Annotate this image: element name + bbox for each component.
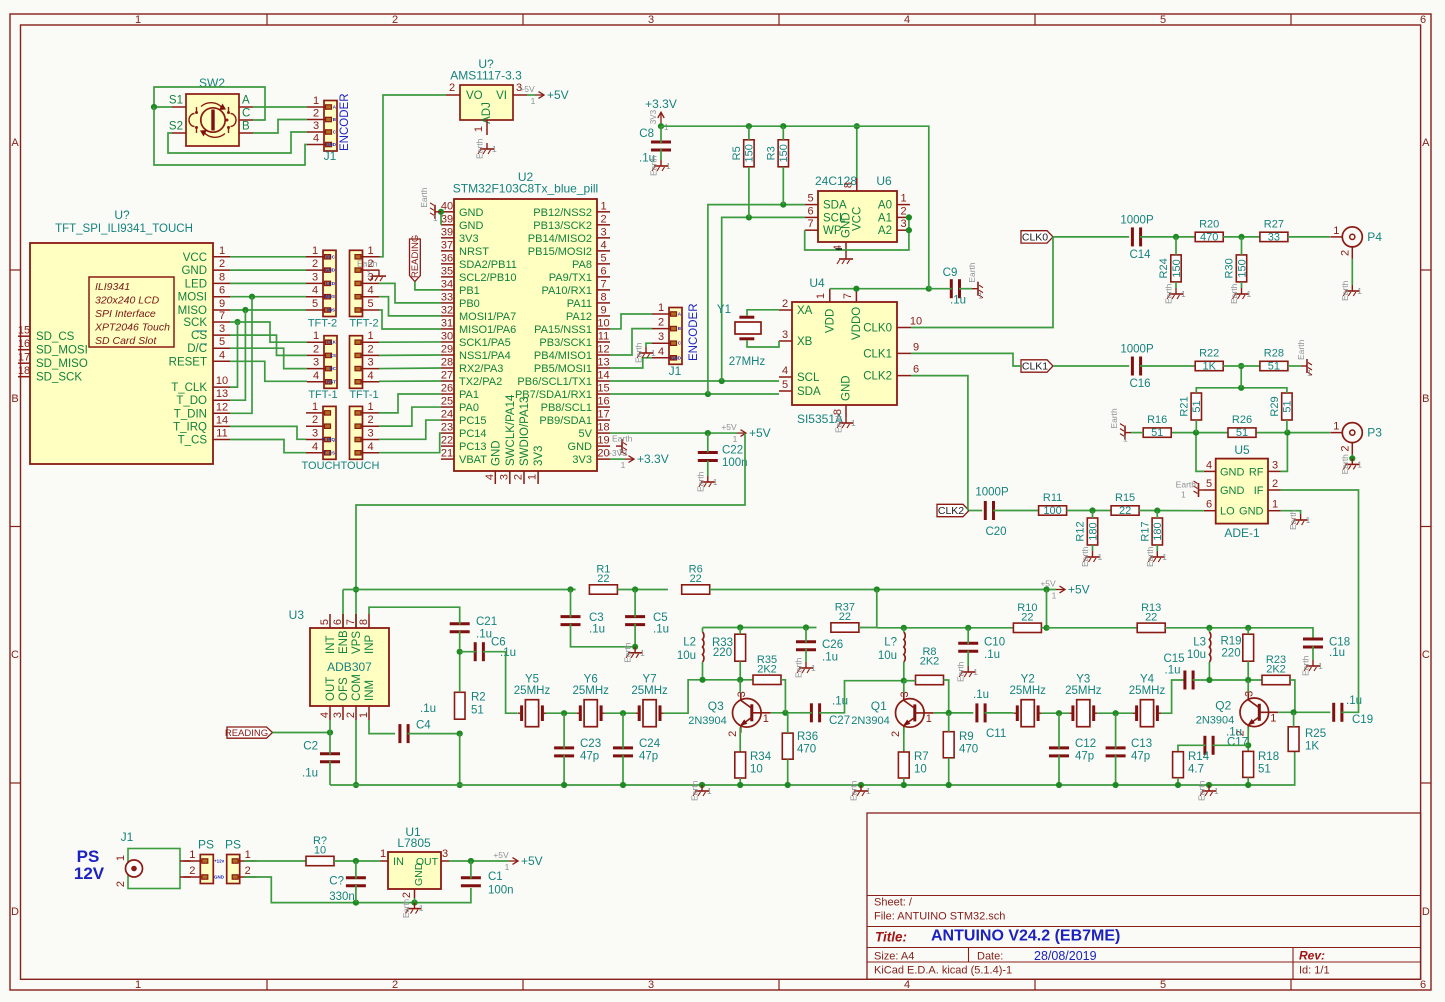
capacitor C6 .1u [475, 637, 516, 662]
svg-text:LED: LED [185, 278, 207, 290]
svg-text:1: 1 [473, 126, 485, 132]
svg-text:TFT-2: TFT-2 [308, 318, 337, 330]
STM32 right pin 12 PB4/MISO1 [534, 343, 610, 362]
junction [1245, 677, 1251, 683]
svg-text:C27: C27 [829, 715, 850, 727]
junction [1206, 782, 1212, 788]
svg-text:+5V: +5V [519, 84, 535, 94]
wire [1241, 237, 1243, 255]
svg-text:R9: R9 [959, 731, 974, 743]
svg-text:Earth: Earth [1109, 408, 1119, 429]
svg-text:Earth: Earth [649, 155, 659, 176]
wire [355, 885, 357, 903]
svg-text:RX2/PA3: RX2/PA3 [459, 363, 503, 375]
STM32 right pin 17 PB9/SDA1 [539, 409, 610, 428]
svg-text:PA11: PA11 [567, 298, 592, 310]
svg-text:25MHz: 25MHz [1129, 685, 1166, 697]
svg-text:PB15/MOSI2: PB15/MOSI2 [528, 246, 592, 258]
svg-text:+5V: +5V [547, 88, 569, 102]
svg-text:1: 1 [1270, 712, 1276, 724]
junction [1175, 782, 1181, 788]
svg-text:10: 10 [914, 764, 927, 776]
junction [242, 307, 248, 313]
svg-text:C10: C10 [984, 637, 1005, 649]
svg-text:Earth: Earth [1197, 780, 1207, 801]
svg-text:PA8: PA8 [572, 259, 592, 271]
svg-text:2: 2 [392, 14, 398, 26]
svg-text:ILI9341: ILI9341 [95, 281, 130, 293]
wire [934, 712, 973, 714]
svg-text:16: 16 [597, 396, 609, 408]
wire [605, 712, 636, 714]
junction [906, 227, 912, 233]
wire [903, 778, 905, 785]
svg-text:SD_SCK: SD_SCK [36, 372, 82, 384]
connector J1 (encoder at STM32) [652, 302, 682, 378]
svg-text:D/C: D/C [187, 343, 207, 355]
STM32 left pin 37 NRST [441, 239, 489, 258]
svg-text:3: 3 [648, 979, 654, 991]
wire [1042, 712, 1070, 714]
svg-text:Earth: Earth [357, 259, 378, 269]
svg-text:GND: GND [459, 207, 484, 219]
svg-text:IF: IF [1254, 485, 1264, 497]
svg-text:13: 13 [216, 388, 228, 400]
svg-text:5: 5 [1160, 14, 1166, 26]
svg-text:3: 3 [313, 357, 319, 369]
module pin 7 SCK [183, 310, 230, 329]
svg-text:SW2: SW2 [199, 76, 225, 90]
svg-text:3V3: 3V3 [533, 446, 545, 466]
svg-text:36: 36 [441, 252, 453, 264]
STM32 right pin 10 PA15/NSS1 [534, 317, 610, 336]
wire [355, 720, 357, 785]
resistor R23 2K2 [1262, 654, 1290, 685]
svg-text:R11: R11 [1043, 492, 1062, 504]
svg-text:150: 150 [1171, 259, 1183, 277]
wire [379, 354, 441, 356]
resistor R33 220 vertical [712, 634, 746, 661]
junction [327, 729, 333, 735]
capacitor C11 .1u [973, 689, 1006, 740]
svg-text:Q1: Q1 [871, 699, 887, 713]
svg-text:4: 4 [367, 285, 373, 297]
svg-text:PS: PS [198, 838, 214, 852]
svg-text:2: 2 [401, 892, 413, 898]
svg-text:MOSI1/PA7: MOSI1/PA7 [459, 311, 516, 323]
junction [901, 782, 907, 788]
svg-text:CLK0: CLK0 [863, 323, 892, 335]
svg-text:1: 1 [312, 245, 318, 257]
wire [230, 269, 306, 271]
svg-text:T_DO: T_DO [176, 395, 207, 407]
svg-text:39: 39 [441, 213, 453, 225]
svg-text:+5V: +5V [749, 426, 771, 440]
svg-text:51: 51 [1191, 400, 1203, 412]
svg-text:4.7: 4.7 [1188, 764, 1204, 776]
svg-text:3: 3 [498, 474, 510, 480]
wire [1312, 646, 1314, 660]
STM32 left pin 39 GND [441, 213, 484, 232]
svg-text:Sheet: /: Sheet: / [874, 897, 913, 909]
wire [856, 126, 858, 178]
rotary encoder SW2 [169, 76, 253, 146]
svg-text:22: 22 [1021, 611, 1033, 623]
wire [329, 761, 331, 785]
junction [353, 900, 359, 906]
svg-text:8: 8 [219, 271, 225, 283]
svg-text:13: 13 [597, 356, 609, 368]
junction [1206, 677, 1212, 683]
wire [967, 628, 969, 644]
svg-text:C: C [1422, 649, 1430, 661]
wire [967, 651, 969, 667]
svg-text:4: 4 [367, 441, 373, 453]
STM32 left pin 27 TX2/PA2 [441, 370, 502, 389]
svg-text:Earth: Earth [794, 657, 804, 678]
svg-text:9: 9 [600, 304, 606, 316]
svg-text:1: 1 [733, 434, 738, 444]
junction [803, 624, 809, 630]
mcu U2 STM32F103C8Tx_blue_pill [453, 170, 598, 471]
svg-text:4: 4 [782, 365, 788, 377]
connector TFT-1 (right) [349, 330, 379, 401]
svg-text:4: 4 [1206, 459, 1212, 471]
wire [948, 713, 950, 732]
resistor R14 4.7 vertical [1173, 751, 1210, 778]
svg-text:RST: RST [327, 379, 336, 384]
svg-text:LO: LO [1220, 506, 1235, 518]
svg-text:Earth: Earth [956, 661, 966, 682]
junction [699, 677, 705, 683]
resistor R29 51 vertical [1269, 393, 1294, 420]
svg-text:5: 5 [219, 336, 225, 348]
svg-text:3: 3 [899, 691, 911, 697]
svg-text:T_IRQ: T_IRQ [173, 421, 207, 433]
svg-text:R12: R12 [1075, 521, 1087, 541]
svg-text:AMS1117-3.3: AMS1117-3.3 [450, 69, 522, 83]
wire [660, 149, 662, 160]
power +3.3V above C8 [645, 97, 677, 132]
wire [1067, 510, 1112, 512]
svg-text:Earth: Earth [419, 187, 429, 208]
resistor R21 51 vertical [1178, 393, 1203, 420]
transistor Q1 2N3904 [851, 691, 934, 737]
svg-text:1: 1 [367, 269, 372, 279]
resistor R11 100 [1039, 492, 1067, 517]
svg-text:R19: R19 [1220, 636, 1241, 648]
svg-text:B: B [11, 393, 18, 405]
svg-text:D: D [11, 906, 19, 918]
svg-text:+5V: +5V [521, 854, 543, 868]
svg-text:SDA2/PB11: SDA2/PB11 [459, 259, 517, 271]
wire [440, 212, 442, 225]
svg-text:R2: R2 [471, 692, 486, 704]
junction [854, 123, 860, 129]
STM32 right pin 3 PB14/MISO2 [528, 226, 610, 245]
junction [926, 286, 932, 292]
wire [1156, 511, 1158, 518]
wire [563, 713, 565, 749]
svg-text:Earth: Earth [623, 642, 633, 663]
svg-text:XA: XA [797, 305, 813, 317]
earth at AMS1117 ADJ [475, 138, 498, 159]
svg-text:.1u: .1u [973, 689, 989, 701]
STM32 bottom pin 2 SWDIO/PA13 [513, 397, 532, 484]
svg-text:22: 22 [690, 573, 702, 585]
svg-text:.1u: .1u [420, 703, 436, 715]
module pin 10 T_CLK [171, 375, 230, 394]
svg-text:PB14/MISO2: PB14/MISO2 [528, 233, 592, 245]
inductor L? 10u [878, 632, 905, 662]
earth below C3/C5 [623, 642, 646, 663]
svg-text:C3: C3 [589, 612, 604, 624]
wire [661, 126, 929, 289]
svg-text:100: 100 [1043, 505, 1061, 517]
junction [1154, 508, 1160, 514]
svg-text:9: 9 [219, 298, 225, 310]
svg-text:1: 1 [135, 979, 141, 991]
junction [658, 123, 664, 129]
capacitor C22 100n [698, 445, 748, 470]
svg-text:47p: 47p [1131, 751, 1150, 763]
wire [610, 393, 779, 395]
svg-text:320x240 LCD: 320x240 LCD [95, 295, 160, 307]
svg-text:GND: GND [490, 440, 502, 466]
svg-text:4: 4 [313, 370, 319, 382]
wire [1255, 432, 1330, 434]
wire [993, 510, 1039, 512]
transistor Q3 2N3904 [688, 691, 771, 737]
svg-text:22: 22 [1145, 611, 1157, 623]
wire [664, 680, 703, 713]
junction [1056, 782, 1062, 788]
svg-text:1: 1 [492, 144, 497, 154]
svg-text:WP: WP [823, 225, 842, 237]
svg-text:1: 1 [419, 904, 424, 913]
svg-text:1: 1 [1123, 434, 1128, 444]
wire [805, 628, 807, 643]
svg-text:U6: U6 [876, 174, 892, 188]
STM32 bottom pin 3 SWCLK/PA14 [498, 394, 517, 484]
svg-text:CLK0: CLK0 [1022, 232, 1048, 244]
resistor R6 22 [682, 564, 710, 595]
power +5V on amp rail [1040, 579, 1089, 601]
module pin 9 MISO [178, 298, 230, 317]
connector PS (right) [225, 838, 257, 884]
resistor R12 180 vertical [1075, 518, 1100, 545]
STM32 left pin 36 SDA2/PB11 [441, 252, 517, 271]
wire [415, 282, 441, 290]
svg-text:1: 1 [358, 712, 370, 718]
wire [739, 727, 741, 752]
svg-text:GND: GND [413, 862, 425, 886]
svg-text:Y1: Y1 [717, 304, 731, 316]
svg-text:3: 3 [1272, 459, 1278, 471]
wire [379, 95, 446, 257]
svg-text:B: B [1422, 393, 1429, 405]
svg-text:1: 1 [973, 667, 978, 677]
svg-text:12: 12 [216, 401, 228, 413]
svg-text:5V: 5V [579, 428, 593, 440]
svg-text:.1u: .1u [302, 768, 318, 780]
svg-text:PC15: PC15 [459, 415, 487, 427]
wire [610, 432, 737, 434]
svg-text:SCL: SCL [797, 372, 820, 384]
svg-text:CLK1: CLK1 [863, 348, 892, 360]
junction [946, 710, 952, 716]
wire [739, 680, 741, 693]
svg-text:+5V: +5V [1068, 583, 1090, 597]
svg-text:1: 1 [815, 293, 827, 299]
wire [1351, 455, 1353, 459]
svg-text:10u: 10u [878, 650, 897, 662]
wire [660, 126, 662, 143]
svg-text:DC: DC [330, 366, 337, 371]
svg-text:1K: 1K [1202, 361, 1216, 373]
wire [570, 590, 572, 618]
wire [483, 652, 518, 714]
connector TFT-2 (right) [349, 245, 379, 330]
wire [230, 426, 306, 439]
svg-text:1: 1 [651, 348, 656, 358]
capacitor C3 .1u [561, 612, 606, 636]
junction [1043, 586, 1049, 592]
junction [853, 286, 859, 292]
capacitor C14 1000P [1120, 215, 1154, 262]
svg-text:PA15/NSS1: PA15/NSS1 [534, 324, 592, 336]
svg-text:R36: R36 [797, 731, 818, 743]
svg-text:R29: R29 [1269, 396, 1281, 416]
svg-text:3: 3 [312, 271, 318, 283]
svg-text:R30: R30 [1224, 258, 1236, 278]
capacitor C17 .1u [1205, 727, 1248, 755]
wire [1092, 545, 1094, 551]
svg-text:11: 11 [598, 330, 609, 342]
junction [1238, 385, 1244, 391]
earth below R17 [1145, 546, 1168, 567]
svg-text:L3: L3 [1193, 637, 1206, 649]
wire [710, 589, 1056, 591]
svg-text:17: 17 [18, 352, 30, 364]
svg-text:47p: 47p [580, 751, 599, 763]
junction [234, 319, 240, 325]
svg-text:4: 4 [367, 370, 373, 382]
wire [782, 126, 784, 140]
connector P3 coax [1330, 421, 1382, 455]
wire [748, 167, 750, 218]
svg-text:INM: INM [364, 680, 376, 701]
junction [874, 586, 880, 592]
wire [904, 680, 916, 682]
STM32 right pin 5 PA8 [572, 252, 610, 271]
earth at TFT-2 right pin2 [357, 259, 386, 282]
svg-text:MISO: MISO [178, 305, 207, 317]
wire [460, 651, 476, 653]
svg-text:PA1: PA1 [459, 389, 479, 401]
svg-text:150: 150 [1236, 259, 1248, 277]
svg-text:INP: INP [364, 635, 376, 655]
svg-text:1: 1 [763, 713, 769, 725]
svg-text:5: 5 [312, 298, 318, 310]
wire [782, 167, 784, 205]
wire [253, 106, 307, 108]
svg-text:C12: C12 [1075, 738, 1096, 750]
svg-text:R21: R21 [1178, 396, 1190, 416]
svg-text:P3: P3 [1367, 426, 1382, 440]
svg-text:GND: GND [671, 355, 682, 360]
wire [230, 297, 252, 414]
connector J1 (encoder top) [307, 95, 337, 163]
svg-text:U5: U5 [1234, 443, 1250, 457]
wire [1058, 713, 1060, 749]
svg-text:1: 1 [707, 786, 712, 796]
junction [901, 625, 907, 631]
svg-text:1: 1 [1318, 661, 1323, 671]
connector PS (left) [183, 838, 224, 884]
wire [230, 335, 307, 355]
svg-text:Earth: Earth [1176, 480, 1197, 490]
svg-text:R20: R20 [1199, 218, 1219, 230]
svg-text:VDDO: VDDO [851, 307, 863, 340]
svg-text:+3.3V: +3.3V [637, 452, 669, 466]
junction [780, 123, 786, 129]
module pin 17 SD_MISO [18, 352, 88, 371]
wire [985, 712, 1014, 714]
svg-text:5: 5 [600, 252, 606, 264]
svg-text:1K: 1K [1305, 741, 1319, 753]
svg-text:OUT: OUT [325, 677, 337, 701]
resistor R1 22 [589, 564, 617, 595]
capacitor C2 .1u [302, 741, 340, 780]
svg-text:23: 23 [441, 422, 453, 434]
svg-text:PA0: PA0 [459, 402, 479, 414]
junction [353, 858, 359, 864]
svg-text:220: 220 [713, 647, 732, 659]
svg-text:470: 470 [797, 744, 816, 756]
svg-text:330n: 330n [329, 891, 355, 903]
svg-text:J1: J1 [669, 364, 682, 378]
wire [610, 314, 652, 329]
svg-text:CS: CS [330, 353, 336, 358]
svg-text:C8: C8 [639, 128, 654, 140]
wire [859, 590, 877, 628]
resistor R30 150 vertical [1224, 255, 1249, 282]
wire [154, 107, 307, 165]
svg-text:PB4/MISO1: PB4/MISO1 [534, 350, 592, 362]
svg-text:25MHz: 25MHz [572, 685, 609, 697]
svg-text:3: 3 [648, 14, 654, 26]
svg-text:1: 1 [621, 460, 626, 470]
wire [379, 380, 441, 382]
svg-text:22: 22 [441, 435, 453, 447]
junction [620, 782, 626, 788]
junction [567, 586, 573, 592]
svg-text:GND: GND [181, 265, 207, 277]
transistor Q2 2N3904 [1196, 691, 1279, 737]
resistor R9 470 vertical [943, 731, 978, 758]
svg-text:28: 28 [441, 356, 453, 368]
svg-text:GND: GND [214, 875, 225, 880]
earth below C8 [649, 155, 672, 176]
wire [830, 288, 929, 290]
svg-text:R26: R26 [1232, 414, 1252, 426]
junction [561, 782, 567, 788]
module pin 6 MOSI [178, 285, 230, 304]
wire [459, 652, 461, 693]
svg-text:51: 51 [1236, 427, 1248, 439]
svg-text:3: 3 [1243, 691, 1255, 697]
